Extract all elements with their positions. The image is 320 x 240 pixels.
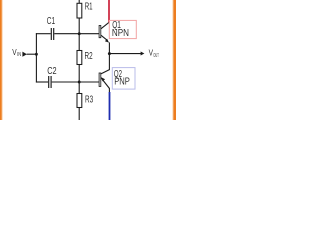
transistor Q1 emitter arrow [105,39,109,43]
svg-text:IN: IN [17,52,21,58]
svg-text:PNP: PNP [114,76,130,87]
resistor R2 [77,51,82,65]
svg-text:OUT: OUT [153,53,158,59]
svg-text:R3: R3 [85,95,93,106]
wire emitter rail to output node [101,42,110,74]
transistor Q2 base bar [99,73,101,86]
svg-text:R1: R1 [85,2,93,13]
transistor Q1 emitter [101,35,107,40]
supply rail blue (Vee) [109,92,111,120]
junction output node [108,52,111,55]
capacitor C1 [51,28,53,40]
junction lower base node [78,81,81,84]
left page border [0,0,2,120]
annotation box Q2 [112,68,135,90]
wire R2 to R3 [78,65,80,94]
junction Vin node [35,53,38,56]
wire input riser (C1 wire corner to C2 wire corner) [35,33,37,82]
node Vout output arrow [141,52,145,56]
wire R1 to R2 [78,18,80,51]
annotation box Q1 [109,20,136,38]
svg-text:C2: C2 [47,66,56,77]
supply rail red (Vcc) [108,0,110,22]
junction upper base node [78,32,81,35]
wire upper: corner to C1 [36,33,51,35]
transistor Q1 collector [101,22,110,29]
wire lower: C2 to Q2 base [52,81,99,83]
transistor Q2 emitter [101,78,110,89]
capacitor C2 [49,76,51,88]
wire output [109,53,140,55]
wire Vin to junction [27,53,37,55]
wire stub above R1 [78,0,80,3]
transistor Q1 base bar [99,26,101,38]
wire lower: corner to C2 [36,81,48,83]
svg-text:R2: R2 [85,51,93,62]
wire Q2 emitter to negative rail [108,88,110,92]
resistor R3 [77,94,82,108]
svg-text:NPN: NPN [112,28,129,39]
node Vin input arrow [22,52,27,57]
svg-text:C1: C1 [47,16,55,27]
transistor Q2 emitter arrow (PNP, points into base) [101,77,105,81]
right page border [173,0,176,120]
wire upper: C1 to Q1 base [54,33,99,35]
wire stub below R3 [78,108,80,121]
resistor R1 [77,3,82,18]
